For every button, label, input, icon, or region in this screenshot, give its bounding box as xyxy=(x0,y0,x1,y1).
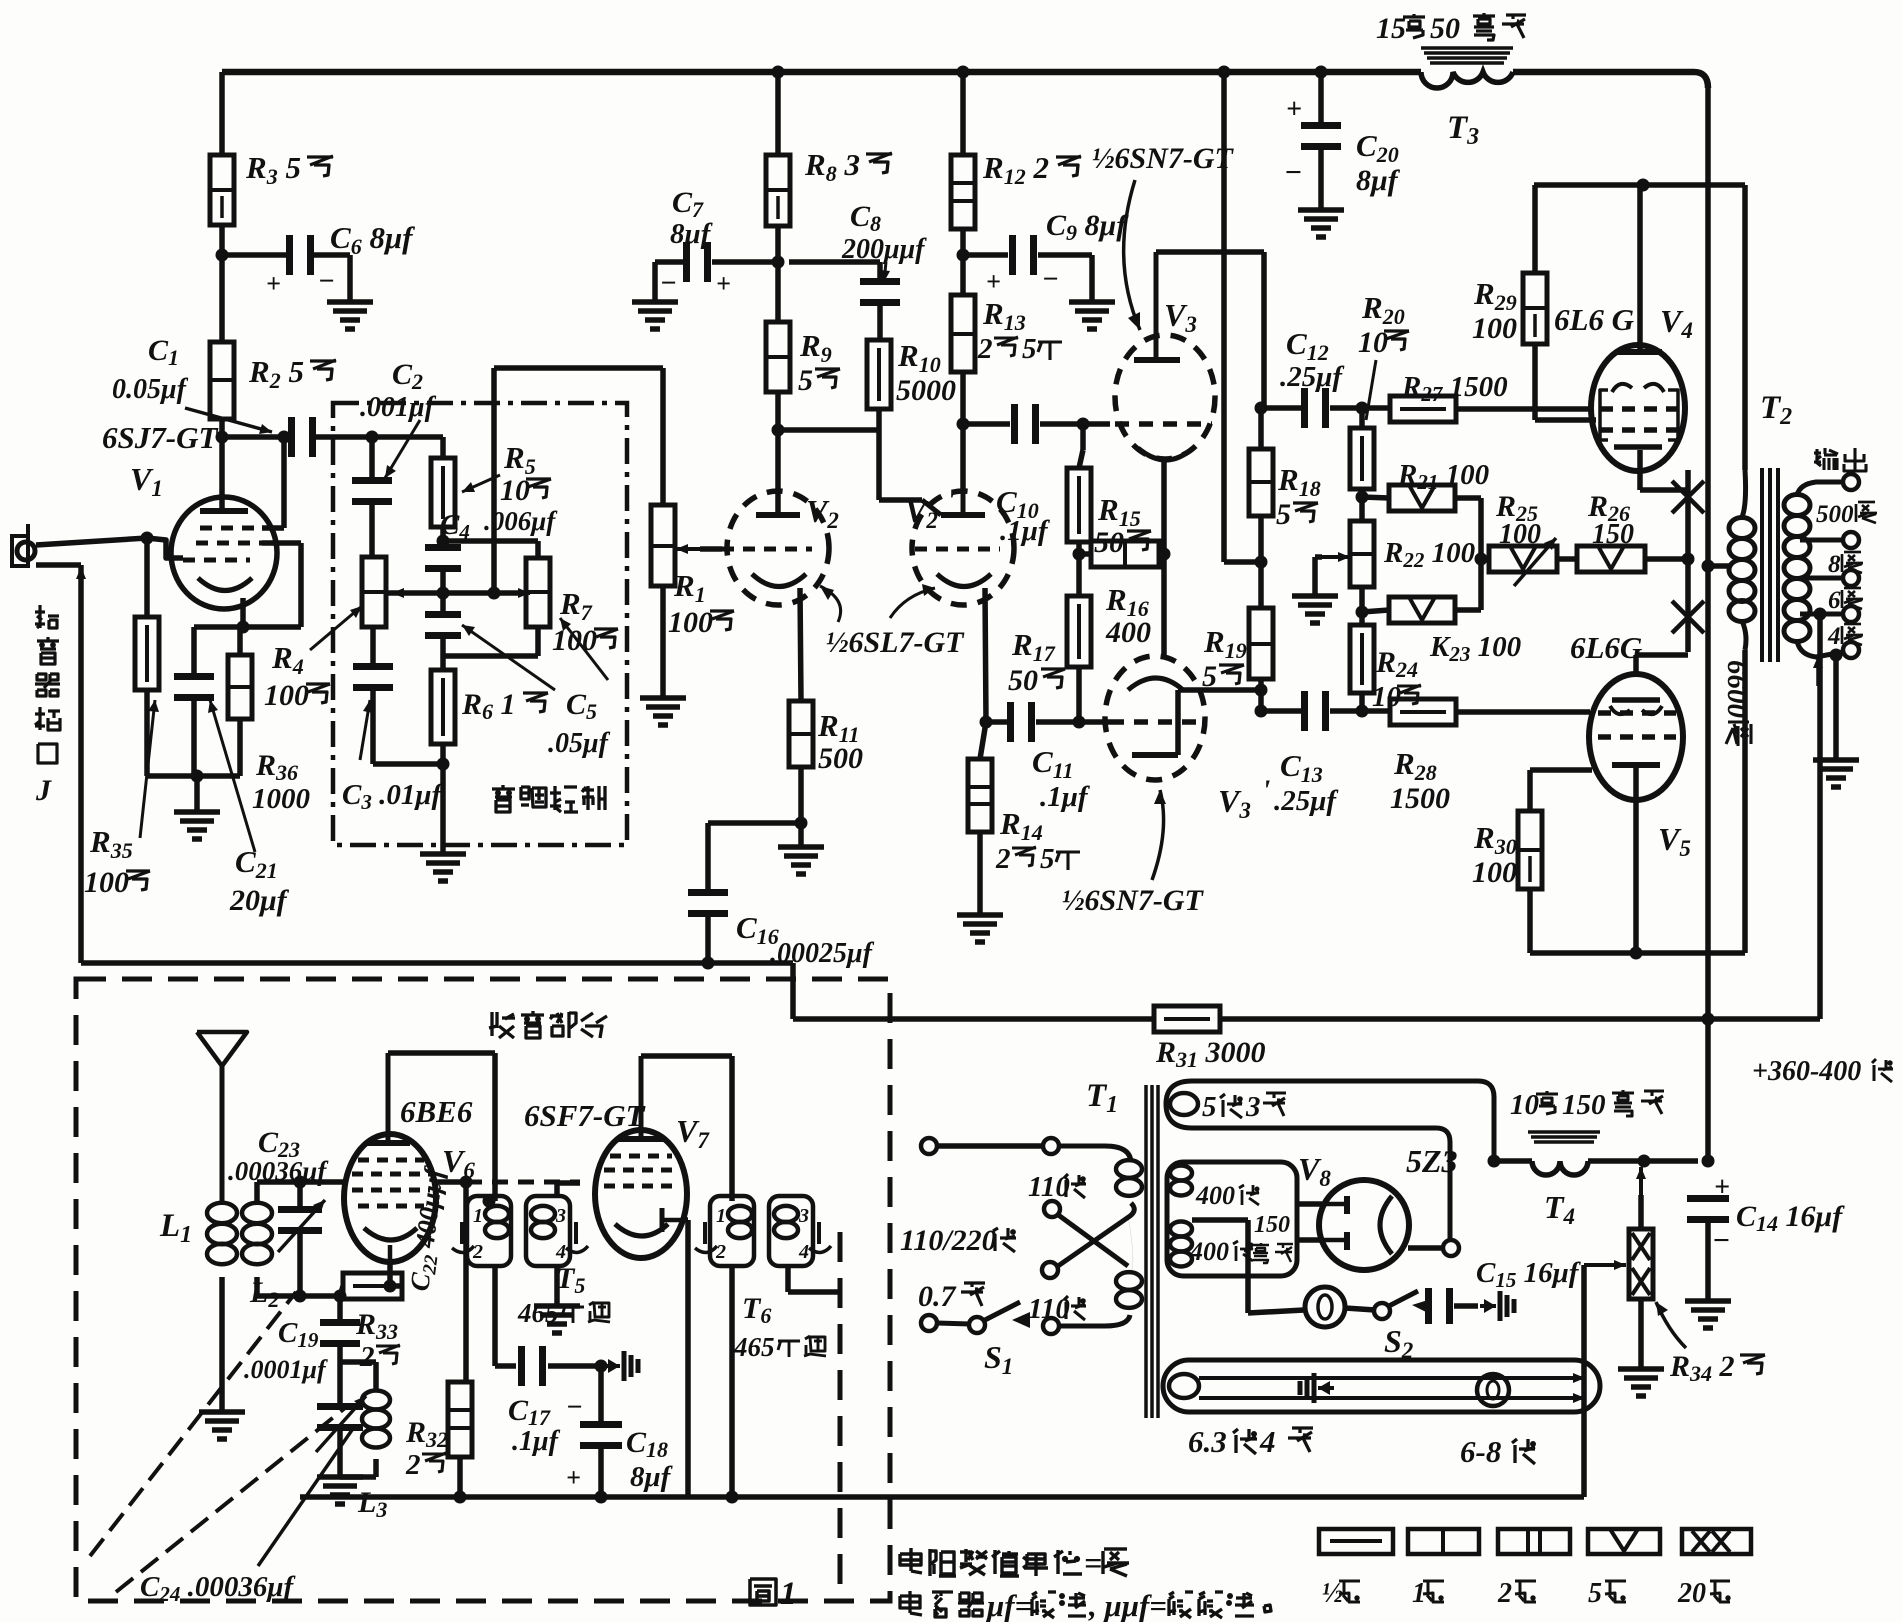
center tap wire xyxy=(1192,1217,1248,1223)
wire R25R26 xyxy=(1557,556,1577,562)
V6 grid dashes rows xyxy=(358,1158,424,1163)
V1 grid dashes xyxy=(183,558,250,563)
resistor R17 xyxy=(1067,596,1091,667)
V4 plate bar xyxy=(1616,349,1662,355)
svg-text:C9 8μf: C9 8μf xyxy=(1046,209,1129,245)
ground stem xyxy=(194,776,200,810)
T2 center tap xyxy=(1708,563,1730,569)
resistor R31 xyxy=(1154,1006,1220,1032)
resistor R28 xyxy=(1390,699,1456,725)
svg-text:400: 400 xyxy=(1105,616,1151,649)
C3 pointer xyxy=(360,700,370,760)
T3 hatching xyxy=(1421,46,1513,50)
V5 bottom rail xyxy=(1530,950,1745,956)
inductor L1 xyxy=(207,1203,237,1223)
T2 primary bottom wire xyxy=(1742,650,1748,953)
resistor R32 xyxy=(448,1382,472,1457)
jack ground drop xyxy=(78,565,84,963)
wire C11 to V3p grid xyxy=(1036,719,1110,725)
T1 core xyxy=(1144,1085,1148,1418)
wire to R18R19 mid xyxy=(1224,559,1261,565)
bottom row under V1 xyxy=(147,773,240,779)
wire bus to R12 xyxy=(960,72,966,155)
R5 stub xyxy=(440,437,446,458)
capacitor C16 xyxy=(688,889,728,896)
svg-text:50: 50 xyxy=(1008,664,1038,697)
primary top wire xyxy=(937,1143,1043,1149)
C19 to C24 wire xyxy=(337,1340,343,1410)
R7 top stub xyxy=(535,541,541,558)
wire plate rail to T2 xyxy=(1742,185,1748,470)
svg-text:+360-400: +360-400 xyxy=(1752,1056,1861,1087)
V2 plate bar xyxy=(756,512,800,518)
V2p cathode wire xyxy=(985,588,986,722)
R11 ground stem xyxy=(798,823,804,845)
svg-text:400: 400 xyxy=(1189,1237,1229,1266)
secondary ground stem xyxy=(1833,655,1839,758)
chassis mark C15 xyxy=(1480,1304,1496,1308)
rail y963 xyxy=(81,960,793,966)
svg-text:.05μf: .05μf xyxy=(548,728,611,759)
svg-text:10: 10 xyxy=(1510,1089,1539,1121)
T5 box2 top wire xyxy=(554,1183,560,1196)
R30 wires xyxy=(1527,770,1533,811)
R34 pointer xyxy=(1656,1302,1686,1348)
legend 5 watt xyxy=(1588,1529,1660,1554)
T4 hatching xyxy=(1528,1130,1600,1134)
T5 box2 ground wire xyxy=(554,1266,560,1304)
R24 stubs xyxy=(1359,612,1365,625)
V8 plate bars xyxy=(1344,1196,1350,1214)
svg-text:6: 6 xyxy=(1828,587,1841,614)
svg-text:8μf: 8μf xyxy=(630,1461,674,1493)
wire C1 into tone box xyxy=(314,434,372,440)
wire R26 to node xyxy=(1645,556,1688,562)
feedback vertical xyxy=(1685,470,1691,652)
svg-text:10: 10 xyxy=(500,474,530,507)
T5 trimmer2 xyxy=(574,1222,578,1244)
tone control dashed box xyxy=(333,403,627,845)
C24 pointer line xyxy=(258,1430,352,1566)
V7 grid rows xyxy=(610,1154,672,1159)
tube V2p envelope xyxy=(912,491,1014,605)
resistor R34 xyxy=(1629,1229,1653,1299)
R23 wires xyxy=(1362,610,1389,612)
svg-text:100: 100 xyxy=(1472,856,1517,889)
svg-text:J: J xyxy=(35,774,52,807)
tube V3p envelope xyxy=(1105,656,1205,780)
V1 plate bar xyxy=(200,508,248,514)
inductor L3 xyxy=(362,1390,390,1409)
svg-text:R27 1500: R27 1500 xyxy=(1401,371,1508,406)
V7 plate bar xyxy=(618,1136,664,1142)
V5 beam arcs xyxy=(1610,706,1630,714)
svg-text:6L6G: 6L6G xyxy=(1570,630,1643,665)
primary lower curve xyxy=(1128,1216,1133,1272)
R4 pointer arrow xyxy=(310,606,362,650)
V1 screen tie wire xyxy=(262,525,284,531)
choke T4 coils xyxy=(1532,1161,1588,1175)
C15 wire to chassis xyxy=(1454,1303,1478,1309)
svg-text:+: + xyxy=(986,267,1001,296)
V5 plate bar xyxy=(1612,762,1660,768)
svg-text:10: 10 xyxy=(1358,326,1388,359)
C2 pointer xyxy=(385,420,420,478)
svg-text:5: 5 xyxy=(798,364,813,397)
resistor R29 xyxy=(1523,273,1547,344)
ground under R34 xyxy=(1618,1366,1664,1372)
C23 bottom wire xyxy=(297,1234,303,1296)
svg-text:2: 2 xyxy=(1497,1578,1512,1609)
svg-text:4: 4 xyxy=(1259,1424,1276,1459)
wire bus drop x1224 xyxy=(1221,72,1227,562)
inductor L2 xyxy=(242,1203,272,1223)
R18 stubs xyxy=(1258,408,1264,449)
svg-text:.25μf: .25μf xyxy=(1280,361,1345,393)
cross mark lower xyxy=(1672,601,1704,633)
svg-text:.00036μf: .00036μf xyxy=(228,1156,329,1186)
V7 plate stem xyxy=(639,1056,644,1136)
resistor R15 xyxy=(1067,468,1091,542)
label tone control xyxy=(501,785,504,788)
V1 screen dashes xyxy=(200,526,262,531)
resistor R23 xyxy=(1389,597,1455,623)
wire C23 stem xyxy=(297,1182,303,1213)
ground under C9 xyxy=(1069,299,1115,305)
wire C12 row xyxy=(1261,405,1302,411)
R33 stub xyxy=(340,1286,343,1296)
R22 slider arrow xyxy=(1322,555,1350,559)
C5 wire xyxy=(440,632,446,670)
wire C10 to V3 grid xyxy=(1040,421,1110,427)
R19 stubs xyxy=(1258,562,1264,608)
R7 pointer xyxy=(560,618,608,680)
svg-text:R21 100: R21 100 xyxy=(1397,459,1489,494)
R4 slider arrow xyxy=(392,591,412,595)
wire R27 to V4 grid xyxy=(1456,406,1594,412)
capacitor C2 xyxy=(352,477,392,484)
T6 box2 stub xyxy=(785,1266,791,1292)
tap bottom xyxy=(1797,641,1843,657)
400V coil upper xyxy=(1170,1166,1192,1181)
wire C13 to R28 xyxy=(1330,708,1390,714)
antenna xyxy=(220,1066,225,1203)
wire jack to grid xyxy=(147,538,183,558)
svg-text:8: 8 xyxy=(1828,551,1841,578)
tube V8 envelope xyxy=(1319,1180,1409,1270)
T5 trimmer1 xyxy=(460,1222,464,1244)
R6 bottom wire xyxy=(440,744,446,764)
svg-text:6BE6: 6BE6 xyxy=(400,1094,473,1129)
V7 diode drop xyxy=(685,1217,688,1223)
V3 plate bar xyxy=(1134,357,1180,363)
svg-text:': ' xyxy=(1262,774,1270,807)
rail y1019 left xyxy=(793,1016,1154,1022)
R20 pointer xyxy=(1366,360,1376,420)
R35 bottom wire xyxy=(144,690,150,776)
capacitor C9 xyxy=(1009,235,1016,275)
C24 bottom wire xyxy=(337,1431,343,1475)
capacitor C14 xyxy=(1687,1195,1729,1202)
svg-text:5000: 5000 xyxy=(896,374,956,407)
resistor R20 xyxy=(1350,428,1374,489)
resistor R21 xyxy=(1389,485,1455,511)
legend half watt xyxy=(1319,1529,1393,1554)
svg-text:1000: 1000 xyxy=(252,783,310,815)
svg-text:8μf: 8μf xyxy=(670,218,714,250)
R22 ground wire xyxy=(1315,554,1322,560)
heater pilot lamp xyxy=(1477,1374,1509,1406)
tap 500ohm wire xyxy=(1797,482,1843,495)
ground under R1 xyxy=(640,695,686,701)
V2 cathode arc xyxy=(752,574,806,587)
svg-text:200μμf: 200μμf xyxy=(841,234,927,265)
R25 slider arrow xyxy=(1514,538,1556,586)
capacitor C18 xyxy=(580,1421,622,1428)
C18 stem xyxy=(598,1366,604,1428)
cathode row wire xyxy=(194,624,301,630)
R16 wires xyxy=(1079,551,1091,557)
mid row xyxy=(388,590,522,596)
capacitor C11 xyxy=(1007,702,1014,742)
primary top curve xyxy=(1059,1146,1131,1162)
resistor R36 xyxy=(228,655,252,719)
resistor R18 xyxy=(1249,449,1273,516)
V2p grid dashes xyxy=(915,547,1000,552)
note capacitors xyxy=(908,1591,911,1613)
tap 8ohm xyxy=(1800,538,1843,543)
wire node to C1 xyxy=(222,434,290,440)
svg-text:4: 4 xyxy=(798,1241,809,1263)
T2 primary curve top xyxy=(1742,470,1746,517)
pilot lamp xyxy=(1305,1287,1345,1327)
V5 plate wire xyxy=(1633,765,1639,953)
wire C19 column xyxy=(337,1296,343,1326)
svg-text:, μμf=: , μμf= xyxy=(1088,1588,1167,1622)
tap 4ohm xyxy=(1800,612,1843,617)
V2p cathode arc xyxy=(937,574,991,587)
R36 stubs xyxy=(237,627,243,655)
primary coil upper xyxy=(1116,1160,1142,1178)
R29 stubs xyxy=(1532,185,1538,273)
V7 diode bar xyxy=(660,1208,665,1232)
svg-text:.25μf: .25μf xyxy=(1274,785,1339,817)
wire C11 row xyxy=(986,719,1008,725)
capacitor C3 xyxy=(353,663,393,670)
svg-text:6SF7-GT: 6SF7-GT xyxy=(524,1098,646,1133)
V6 plate link xyxy=(388,1050,495,1056)
wire R13 to grid node xyxy=(960,372,966,492)
V3 grid dashes xyxy=(1115,421,1212,427)
pickup jack xyxy=(17,542,35,560)
IF can T6 box1 xyxy=(710,1196,754,1266)
C18 bottom wire xyxy=(598,1442,604,1497)
400V coil lower xyxy=(1170,1222,1192,1237)
switch S1 xyxy=(921,1315,937,1331)
svg-text:5: 5 xyxy=(1276,498,1291,531)
T4 junction wire xyxy=(1488,1155,1501,1168)
tube V1 envelope xyxy=(171,497,277,609)
C1 pointer arrow xyxy=(185,408,272,432)
jack tip wire xyxy=(36,538,147,545)
svg-text:150: 150 xyxy=(1254,1212,1290,1238)
400V winding box xyxy=(1167,1162,1297,1276)
svg-text:2: 2 xyxy=(995,843,1011,875)
capacitor C10 xyxy=(1011,404,1018,444)
resistor R19 xyxy=(1249,608,1273,679)
svg-text:2: 2 xyxy=(977,333,993,365)
capacitor C5 xyxy=(425,611,461,618)
V3 plate stem xyxy=(1154,252,1159,360)
V5 cathode wire top xyxy=(1633,655,1639,676)
svg-text:5: 5 xyxy=(1202,1091,1217,1123)
capacitor C8 xyxy=(860,278,900,285)
svg-text:100: 100 xyxy=(1499,519,1541,550)
C20 ground stem xyxy=(1318,143,1324,208)
variable capacitor C24 xyxy=(317,1403,363,1410)
ground under L1 xyxy=(199,1409,245,1415)
svg-text:0.05μf: 0.05μf xyxy=(112,374,189,405)
potentiometer R4 xyxy=(362,557,386,627)
wire R9 to V2 node xyxy=(775,392,781,515)
svg-text:6.3: 6.3 xyxy=(1188,1424,1227,1459)
ground under T2 xyxy=(1813,757,1859,763)
V1 cathode arc xyxy=(198,578,252,591)
chassis mark heater xyxy=(1318,1386,1334,1390)
B+ vertical xyxy=(1705,88,1711,1161)
svg-text:R22 100: R22 100 xyxy=(1383,537,1475,572)
potentiometer R1 xyxy=(651,505,675,586)
legend 1 watt xyxy=(1408,1529,1479,1554)
svg-text:0.7: 0.7 xyxy=(918,1280,957,1313)
grid row left xyxy=(257,1179,345,1185)
wire C13 row xyxy=(1261,708,1302,714)
rail y1019 right xyxy=(1220,1016,1820,1022)
tube V4 envelope xyxy=(1591,345,1685,471)
resistor R13 xyxy=(951,295,975,372)
wire C21 to bottom row xyxy=(191,694,197,776)
R15 stub xyxy=(1080,424,1086,450)
chassis mark C17 xyxy=(604,1364,620,1368)
resistor R11 xyxy=(789,701,813,767)
svg-text:.001μf: .001μf xyxy=(360,392,437,423)
R20 stubs xyxy=(1359,408,1365,428)
wire C9 to ground xyxy=(1038,252,1092,258)
x terminal upper xyxy=(1044,1201,1060,1217)
capacitor C21 xyxy=(174,673,214,680)
resistor R12 xyxy=(951,155,975,229)
R17 stubs xyxy=(1076,542,1082,596)
legend 2 watt xyxy=(1498,1529,1570,1554)
wire bus to R3 xyxy=(219,72,225,155)
svg-text:3: 3 xyxy=(1245,1091,1261,1123)
node row to R10 xyxy=(778,427,879,433)
x terminal lower xyxy=(1042,1262,1058,1278)
feedback to R34 wire xyxy=(1581,1265,1587,1497)
ground under C6 xyxy=(327,299,373,305)
wire node to C9 xyxy=(963,252,1008,258)
C8 pointer xyxy=(884,262,886,282)
svg-text:5Z3: 5Z3 xyxy=(1406,1143,1458,1179)
svg-text:6L6 G: 6L6 G xyxy=(1554,302,1635,337)
resistor R10 xyxy=(867,340,891,409)
svg-text:2: 2 xyxy=(359,1341,375,1373)
svg-text:1: 1 xyxy=(780,1576,797,1612)
row C5 to R7 xyxy=(443,653,538,659)
V2 cathode wire xyxy=(800,588,801,701)
tap 6ohm xyxy=(1800,576,1843,581)
T2 primary curve bottom xyxy=(1742,621,1746,650)
svg-text:3: 3 xyxy=(798,1205,809,1227)
V3p plate wire xyxy=(1175,690,1181,755)
6SN7b pointer xyxy=(1152,790,1164,880)
capacitor C7 xyxy=(683,242,690,282)
S1 wire xyxy=(1059,1315,1130,1326)
svg-text:−: − xyxy=(1042,264,1059,295)
label figure 1 xyxy=(750,1579,776,1605)
T5 winding34 coils xyxy=(531,1206,555,1222)
resistor R8 xyxy=(766,155,790,226)
V8 plate wires xyxy=(1297,1201,1322,1207)
V4 beam arcs xyxy=(1612,384,1632,392)
grid row right xyxy=(434,1179,466,1185)
V5 screen dashes xyxy=(1598,734,1676,740)
wire R8 node xyxy=(775,226,781,322)
T2 secondary coil xyxy=(1784,495,1810,516)
svg-text:4: 4 xyxy=(555,1241,566,1263)
ground under box xyxy=(420,851,466,857)
C16 stubs xyxy=(705,823,711,896)
5V winding loop xyxy=(1192,1081,1494,1161)
svg-text:100: 100 xyxy=(84,866,129,899)
V1 cathode wire xyxy=(240,598,246,627)
V6 plate bar xyxy=(366,1140,410,1146)
IF can T5 box1 xyxy=(467,1196,511,1266)
ground under C24 xyxy=(317,1474,363,1480)
T2 core xyxy=(1760,468,1764,662)
tone out wire xyxy=(491,368,497,593)
resistor R16 xyxy=(1091,541,1159,567)
svg-text:R31 3000: R31 3000 xyxy=(1155,1036,1266,1072)
C5 pointer xyxy=(462,625,555,690)
V3p plate bar xyxy=(1132,752,1178,758)
resistor R6 xyxy=(431,670,455,744)
R5 pointer xyxy=(462,475,500,492)
svg-text:+: + xyxy=(566,1463,581,1492)
V4 screen dashes xyxy=(1600,427,1678,433)
switch S2 xyxy=(1374,1303,1390,1319)
T6 winding34 coils xyxy=(774,1206,798,1222)
svg-text:15: 15 xyxy=(1376,12,1406,45)
potentiometer R22 xyxy=(1350,521,1374,587)
svg-text:3: 3 xyxy=(555,1205,566,1227)
plate top rail xyxy=(1534,182,1745,188)
wire bus to C20 xyxy=(1318,72,1324,129)
T5 box1 bottom wire xyxy=(492,1266,498,1366)
svg-text:50: 50 xyxy=(1430,12,1460,45)
resistor R24 xyxy=(1350,625,1374,693)
wire node to C10 xyxy=(963,421,1010,427)
svg-text:400: 400 xyxy=(1195,1181,1235,1210)
label output xyxy=(1815,449,1818,462)
capacitor C12 xyxy=(1301,388,1308,428)
svg-text:8μf: 8μf xyxy=(1356,164,1401,197)
C3 stubs xyxy=(370,627,376,670)
svg-text:.0001μf: .0001μf xyxy=(244,1355,328,1384)
ground under C7 xyxy=(632,299,678,305)
T6 trimmer1 xyxy=(703,1222,707,1244)
jack sleeve wire xyxy=(36,562,81,568)
